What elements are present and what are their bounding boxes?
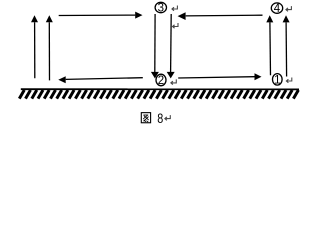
wire: bottom-left horizontal arrow line from node 2 bbox=[66, 78, 143, 80]
node 2: circled digit 2 bbox=[156, 74, 166, 86]
paragraph mark below-right of node 3 bbox=[172, 23, 178, 28]
ground surface top line bbox=[21, 88, 299, 90]
arrowhead pointing up at node 4 (left) bbox=[266, 15, 273, 22]
arrowhead pointing left (bottom-left arrow) bbox=[58, 76, 65, 83]
arrowhead pointing right at node 3 bbox=[135, 12, 142, 19]
arrowhead pointing left at node 3 bbox=[178, 12, 186, 20]
svg-text:8: 8 bbox=[157, 111, 163, 126]
paragraph mark right of node 4 bbox=[285, 6, 291, 11]
arrowhead of left upward arrow B bbox=[46, 15, 53, 22]
wire: left upward arrow line from node 1 to node 4 bbox=[269, 22, 272, 75]
svg-text:2: 2 bbox=[158, 75, 164, 87]
wire: left upward arrow A line bbox=[34, 22, 36, 78]
ground hatching strokes bbox=[19, 90, 298, 99]
node 1: circled digit 1 bbox=[273, 74, 283, 86]
wire: right downward arrow line from node 3 to node 2 bbox=[170, 14, 173, 72]
svg-text:4: 4 bbox=[274, 3, 281, 15]
wire: left upward arrow B line bbox=[48, 22, 50, 80]
arrowhead pointing down at node 2 (left) bbox=[151, 72, 159, 79]
paragraph mark right of node 1 bbox=[286, 78, 292, 83]
arrowhead pointing down at node 2 (right) bbox=[167, 72, 175, 79]
svg-text:3: 3 bbox=[158, 3, 164, 15]
node 4: circled digit 4 bbox=[271, 3, 282, 13]
wire: top-right horizontal arrow line toward node 3 bbox=[186, 14, 263, 17]
svg-text:1: 1 bbox=[274, 75, 280, 87]
paragraph mark after caption bbox=[164, 115, 170, 120]
node 3: circled digit 3 bbox=[155, 2, 166, 12]
arrowhead pointing right at node 1 bbox=[255, 73, 262, 80]
paragraph mark right of node 2 bbox=[170, 79, 176, 84]
wire: bottom-right horizontal arrow line from node 2 to node 1 bbox=[178, 77, 254, 78]
paragraph mark right of node 3 bbox=[171, 6, 177, 11]
wire: right upward arrow line from node 1 to node 4 bbox=[285, 22, 288, 76]
arrowhead pointing up at node 4 (right) bbox=[283, 15, 290, 22]
wire: top-left horizontal arrow line toward node 3 bbox=[59, 14, 136, 16]
arrowhead of left upward arrow A bbox=[31, 15, 38, 22]
wire: left downward arrow line from node 3 to node 2 bbox=[154, 14, 156, 72]
caption character "图" drawn as strokes bbox=[141, 113, 150, 123]
